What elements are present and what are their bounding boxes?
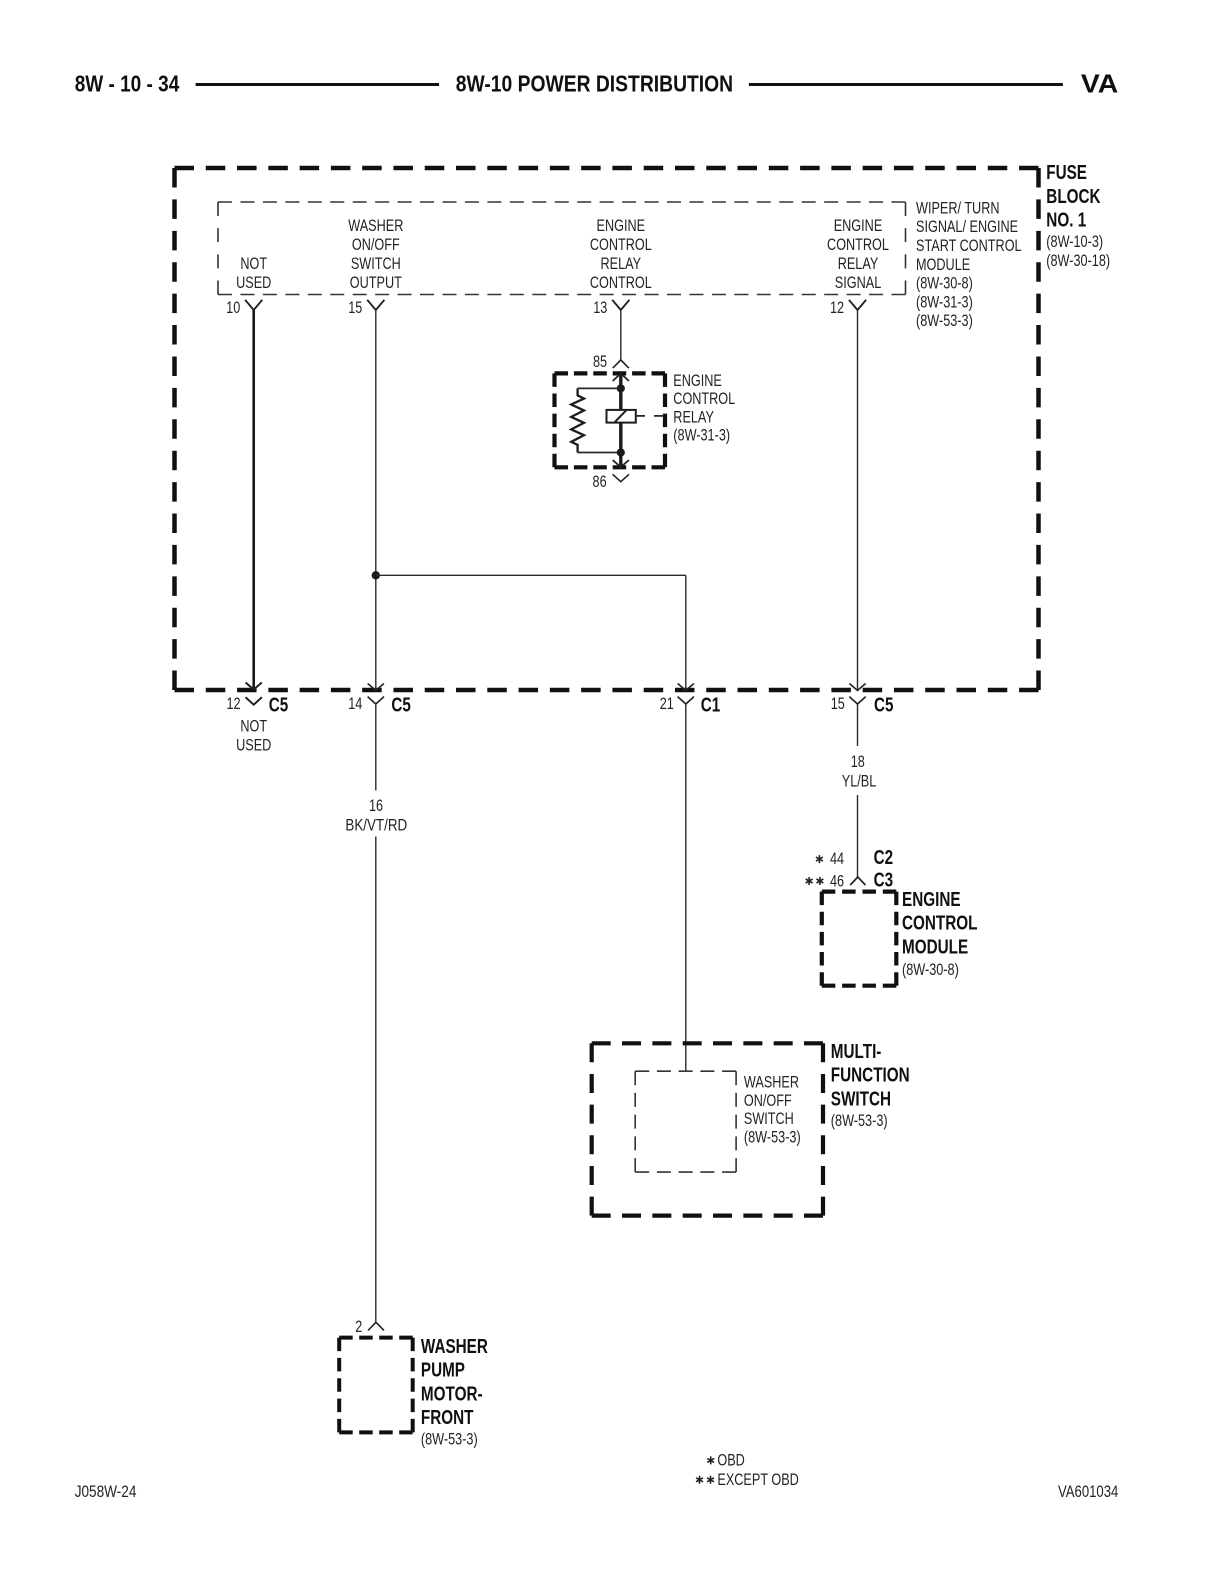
svg-text:USED: USED [236, 273, 271, 292]
svg-text:(8W-53-3): (8W-53-3) [916, 311, 973, 330]
svg-text:CONTROL: CONTROL [827, 235, 889, 254]
svg-text:WASHER: WASHER [744, 1073, 799, 1092]
svg-text:WIPER/ TURN: WIPER/ TURN [916, 198, 1000, 217]
svg-text:MOTOR-: MOTOR- [421, 1382, 483, 1405]
svg-text:13: 13 [593, 298, 607, 317]
svg-text:(8W-31-3): (8W-31-3) [673, 426, 730, 445]
svg-text:FRONT: FRONT [421, 1406, 474, 1429]
svg-text:85: 85 [593, 352, 607, 371]
svg-text:MODULE: MODULE [902, 935, 968, 958]
svg-text:15: 15 [831, 694, 845, 713]
svg-text:C3: C3 [874, 869, 894, 892]
svg-text:15: 15 [348, 298, 362, 317]
svg-text:16: 16 [369, 796, 383, 815]
svg-text:(8W-53-3): (8W-53-3) [831, 1111, 888, 1130]
svg-text:2: 2 [355, 1317, 362, 1336]
svg-text:FUSE: FUSE [1046, 161, 1087, 184]
svg-text:WASHER: WASHER [348, 216, 403, 235]
svg-text:C5: C5 [874, 694, 894, 717]
svg-text:WASHER: WASHER [421, 1335, 488, 1358]
svg-text:(8W-30-18): (8W-30-18) [1046, 251, 1110, 270]
svg-text:J058W-24: J058W-24 [75, 1482, 137, 1501]
svg-text:(8W-30-8): (8W-30-8) [916, 274, 973, 293]
svg-text:NO. 1: NO. 1 [1046, 209, 1086, 232]
svg-text:CONTROL: CONTROL [590, 235, 652, 254]
svg-text:SIGNAL/ ENGINE: SIGNAL/ ENGINE [916, 217, 1018, 236]
svg-text:SWITCH: SWITCH [351, 254, 401, 273]
svg-text:MODULE: MODULE [916, 255, 970, 274]
svg-text:C1: C1 [701, 694, 721, 717]
svg-text:(8W-30-8): (8W-30-8) [902, 960, 959, 979]
svg-text:MULTI-: MULTI- [831, 1040, 882, 1063]
svg-text:C5: C5 [269, 694, 289, 717]
svg-text:RELAY: RELAY [601, 254, 642, 273]
svg-text:C5: C5 [391, 694, 411, 717]
svg-text:NOT: NOT [240, 717, 267, 736]
svg-text:CONTROL: CONTROL [673, 389, 735, 408]
svg-text:(8W-31-3): (8W-31-3) [916, 292, 973, 311]
svg-text:CONTROL: CONTROL [590, 273, 652, 292]
svg-text:CONTROL: CONTROL [902, 912, 978, 935]
svg-text:VA601034: VA601034 [1058, 1482, 1118, 1501]
svg-text:14: 14 [348, 694, 362, 713]
svg-text:18: 18 [851, 752, 865, 771]
svg-text:8W - 10 - 34: 8W - 10 - 34 [75, 71, 180, 97]
svg-text:EXCEPT OBD: EXCEPT OBD [717, 1470, 798, 1489]
svg-text:USED: USED [236, 735, 271, 754]
svg-text:START CONTROL: START CONTROL [916, 236, 1022, 255]
svg-text:12: 12 [830, 298, 844, 317]
svg-text:(8W-10-3): (8W-10-3) [1046, 232, 1103, 251]
svg-text:10: 10 [226, 298, 240, 317]
svg-text:ENGINE: ENGINE [597, 216, 646, 235]
svg-text:44: 44 [830, 849, 844, 868]
svg-text:BLOCK: BLOCK [1046, 185, 1100, 208]
svg-text:VA: VA [1081, 68, 1119, 98]
svg-text:C2: C2 [874, 846, 894, 869]
svg-text:ENGINE: ENGINE [902, 888, 961, 911]
svg-text:RELAY: RELAY [673, 407, 714, 426]
svg-text:YL/BL: YL/BL [842, 772, 877, 791]
svg-text:ON/OFF: ON/OFF [744, 1091, 792, 1110]
svg-text:OUTPUT: OUTPUT [350, 273, 402, 292]
svg-text:RELAY: RELAY [838, 254, 879, 273]
svg-text:12: 12 [226, 694, 240, 713]
svg-text:FUNCTION: FUNCTION [831, 1064, 910, 1087]
svg-text:BK/VT/RD: BK/VT/RD [345, 816, 407, 835]
svg-text:NOT: NOT [240, 254, 267, 273]
svg-text:21: 21 [660, 694, 674, 713]
svg-text:86: 86 [593, 472, 607, 491]
svg-text:SWITCH: SWITCH [831, 1087, 891, 1110]
svg-text:SIGNAL: SIGNAL [835, 273, 882, 292]
svg-text:ON/OFF: ON/OFF [352, 235, 400, 254]
svg-text:(8W-53-3): (8W-53-3) [744, 1127, 801, 1146]
svg-text:OBD: OBD [717, 1451, 744, 1470]
svg-text:8W-10 POWER DISTRIBUTION: 8W-10 POWER DISTRIBUTION [456, 71, 733, 97]
svg-text:ENGINE: ENGINE [673, 371, 722, 390]
svg-text:SWITCH: SWITCH [744, 1109, 794, 1128]
svg-text:ENGINE: ENGINE [834, 216, 883, 235]
svg-text:PUMP: PUMP [421, 1359, 465, 1382]
svg-text:(8W-53-3): (8W-53-3) [421, 1429, 478, 1448]
svg-text:46: 46 [830, 871, 844, 890]
